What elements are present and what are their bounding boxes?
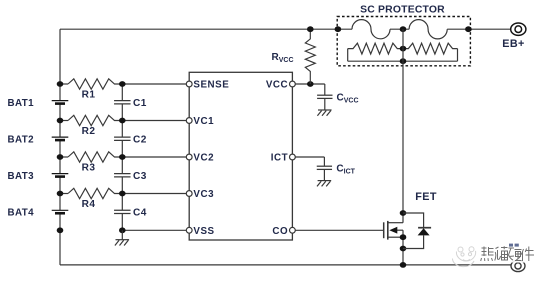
svg-text:BAT1: BAT1 xyxy=(8,98,35,109)
node cap column row 1 xyxy=(119,81,126,87)
svg-text:C1: C1 xyxy=(133,98,147,109)
svg-text:BAT2: BAT2 xyxy=(8,134,35,145)
pin VC3 xyxy=(186,191,192,197)
label EB- remnant xyxy=(509,244,519,247)
node battery column row 2 xyxy=(57,118,64,124)
node fuse left lead xyxy=(335,26,342,32)
capacitor C2 xyxy=(114,137,131,140)
heater resistor RH1 xyxy=(348,43,403,54)
wire cap column top segment xyxy=(121,84,123,100)
wire Cict corner down xyxy=(323,157,325,166)
node cap column row 2 xyxy=(119,118,126,124)
node FET diode bottom junction xyxy=(400,246,407,252)
ground symbol under CVCC xyxy=(317,110,331,116)
node battery column row 1 xyxy=(57,81,64,87)
svg-text:VC1: VC1 xyxy=(193,116,214,127)
node heater center xyxy=(400,46,407,52)
svg-text:SC PROTECTOR: SC PROTECTOR xyxy=(360,4,445,15)
battery BAT4 xyxy=(52,210,69,213)
svg-text:ICT: ICT xyxy=(271,153,288,164)
wire VC2 row xyxy=(122,156,186,158)
capacitor C4 xyxy=(114,210,131,213)
wire battery column segment 5 xyxy=(59,214,61,231)
wire top rail between fuses xyxy=(390,28,409,30)
battery BAT2 xyxy=(52,137,69,140)
wire heater bottom bar xyxy=(348,60,458,62)
diode D1 body diode xyxy=(403,213,431,249)
wire battery column segment 2 xyxy=(59,104,61,137)
wire heater left stub xyxy=(347,49,349,62)
ground stub under CVCC xyxy=(324,98,326,109)
wire heater right stub xyxy=(457,49,459,62)
SC protector dashed box xyxy=(337,17,470,66)
wire VC1 row xyxy=(122,120,186,122)
wire Cvcc corner down xyxy=(324,84,326,95)
transistor FET channel bar xyxy=(387,221,389,240)
svg-text:VCC: VCC xyxy=(266,80,288,91)
svg-text:BAT3: BAT3 xyxy=(8,171,35,182)
pin VC2 xyxy=(186,154,192,160)
wire battery column segment 4 xyxy=(59,177,61,210)
pin VC1 xyxy=(186,118,192,124)
node battery column row 3 xyxy=(57,154,64,160)
wire protector center column upper xyxy=(402,29,404,61)
svg-text:R4: R4 xyxy=(82,199,96,210)
wire VC3 row xyxy=(122,193,186,195)
capacitor CVCC xyxy=(317,95,332,98)
svg-text:BAT4: BAT4 xyxy=(8,207,35,218)
resistor R1 xyxy=(60,83,68,85)
wire cap column segment 4 xyxy=(121,177,123,193)
svg-text:R2: R2 xyxy=(82,126,96,137)
thermal fuse F2 xyxy=(409,20,447,39)
node cap column row 5 xyxy=(119,227,126,233)
op-amp U1 protection IC body xyxy=(189,72,292,240)
transistor FET gate bar xyxy=(383,222,385,238)
thermal fuse F1 xyxy=(352,20,390,39)
svg-text:FET: FET xyxy=(415,191,437,203)
wire ICT pin to Cict corner xyxy=(295,156,324,158)
node cap column row 3 xyxy=(119,154,126,160)
node cap column row 4 xyxy=(119,191,126,197)
node FET drain diode tap xyxy=(400,210,407,216)
ground stub under VSS row xyxy=(121,230,123,239)
wire FET drain stub xyxy=(388,222,403,224)
battery BAT3 xyxy=(52,174,69,177)
terminal EB- xyxy=(511,260,525,271)
wire left column down to bottom rail xyxy=(59,230,61,265)
wire SENSE row xyxy=(122,83,186,85)
wire cap column bottom segment xyxy=(121,214,123,231)
wire cap column segment 2b xyxy=(121,121,123,137)
node Rvcc bottom junction xyxy=(307,81,314,87)
capacitor CICT xyxy=(317,166,332,169)
ground symbol under CICT xyxy=(317,181,331,187)
resistor RVCC xyxy=(305,29,315,84)
wire CO pin to FET gate xyxy=(295,229,384,231)
node fuse right lead xyxy=(465,26,472,32)
svg-text:R3: R3 xyxy=(82,163,96,174)
resistor R2 xyxy=(60,120,68,122)
svg-text:C2: C2 xyxy=(133,134,147,145)
pin SENSE xyxy=(186,81,192,87)
wire FET body-source vertical xyxy=(402,230,404,265)
watermark panda logo xyxy=(452,247,475,267)
node battery column row 4 xyxy=(57,191,64,197)
wire cap column segment 3b xyxy=(121,157,123,173)
svg-text:VC2: VC2 xyxy=(193,153,214,164)
wire cap column segment 2 xyxy=(121,104,123,120)
wire VSS row xyxy=(122,229,186,231)
node battery column row 5 xyxy=(57,227,64,233)
heater resistor RH2 xyxy=(403,43,458,54)
watermark text pseudo-glyphs xyxy=(480,245,536,263)
svg-text:SENSE: SENSE xyxy=(193,80,229,91)
ground stub under CICT xyxy=(323,169,325,180)
node Rvcc top on rail xyxy=(307,26,314,32)
battery BAT1 xyxy=(52,101,69,104)
wire cap column segment 4b xyxy=(121,194,123,211)
terminal EB+ xyxy=(511,23,526,35)
wire top rail left segment xyxy=(60,28,352,30)
wire VCC pin to Cvcc corner xyxy=(295,83,325,85)
wire FET source stub xyxy=(388,236,403,238)
svg-text:R1: R1 xyxy=(82,90,96,101)
node heater bottom center xyxy=(400,58,407,64)
node FET source junction xyxy=(400,234,407,240)
svg-text:EB+: EB+ xyxy=(502,38,525,50)
svg-text:CO: CO xyxy=(272,226,288,237)
pin VSS xyxy=(186,227,192,233)
pin CO xyxy=(290,227,296,233)
node FET source on bottom rail xyxy=(400,262,407,268)
resistor R4 xyxy=(60,193,68,195)
wire bottom rail xyxy=(60,264,511,266)
ground symbol under C4 node xyxy=(115,240,129,246)
wire battery column segment 1 xyxy=(59,29,61,100)
capacitor C3 xyxy=(114,174,131,177)
pin VCC xyxy=(290,81,296,87)
wire cap column segment 3 xyxy=(121,141,123,157)
svg-text:VSS: VSS xyxy=(193,226,214,237)
svg-text:C3: C3 xyxy=(133,171,147,182)
capacitor C1 xyxy=(114,101,131,104)
wire top rail to EB+ terminal xyxy=(447,28,511,30)
wire battery column segment 3 xyxy=(59,141,61,174)
svg-text:C4: C4 xyxy=(133,207,147,218)
resistor R3 xyxy=(60,156,68,158)
svg-text:VC3: VC3 xyxy=(193,189,214,200)
pin ICT xyxy=(290,154,296,160)
transistor FET body arrow xyxy=(396,229,404,231)
wire protector to FET drain xyxy=(402,61,404,223)
node fuse midpoint xyxy=(400,26,407,32)
